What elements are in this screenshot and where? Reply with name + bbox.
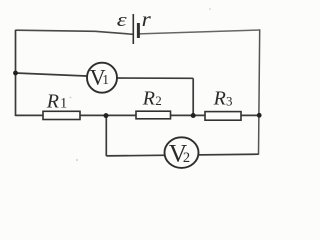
wire right vertical	[259, 29, 260, 154]
paper speck	[70, 97, 72, 99]
junction node R1-R2 (V2 tap)	[104, 113, 109, 118]
svg-text:R: R	[46, 91, 59, 113]
wire main row	[16, 114, 260, 116]
wire V1 branch vertical drop	[192, 78, 194, 115]
svg-text:2: 2	[155, 93, 162, 108]
wire V2 branch vertical drop	[105, 116, 107, 156]
wire left vertical	[15, 30, 17, 116]
wire top-right segment	[139, 30, 260, 34]
svg-text:2: 2	[183, 150, 190, 166]
voltmeter V1 circle	[87, 63, 117, 93]
paper speck	[76, 159, 78, 161]
junction node on left wire (V1 tap)	[13, 71, 18, 76]
battery cell: short thick plate	[137, 23, 140, 38]
resistor R2	[136, 111, 171, 119]
svg-text:3: 3	[226, 93, 233, 108]
paper speck	[209, 8, 211, 10]
junction node R2-R3 (V1 tap)	[191, 113, 196, 118]
wire V1 branch right	[106, 77, 193, 79]
wire top-left segment	[16, 30, 134, 34]
wire V2 branch bottom horizontal	[106, 154, 258, 156]
svg-text:R: R	[142, 87, 155, 109]
svg-text:r: r	[142, 7, 151, 31]
battery cell: long thin plate	[132, 14, 134, 44]
svg-text:R: R	[213, 88, 226, 110]
wire V1 branch left	[16, 73, 99, 77]
resistor R1	[43, 111, 80, 119]
junction node right wire	[257, 113, 262, 118]
voltmeter V2 ellipse	[165, 137, 199, 168]
resistor R3	[205, 112, 241, 121]
svg-text:1: 1	[60, 95, 67, 111]
svg-text:ε: ε	[117, 9, 127, 31]
svg-text:1: 1	[102, 72, 109, 87]
